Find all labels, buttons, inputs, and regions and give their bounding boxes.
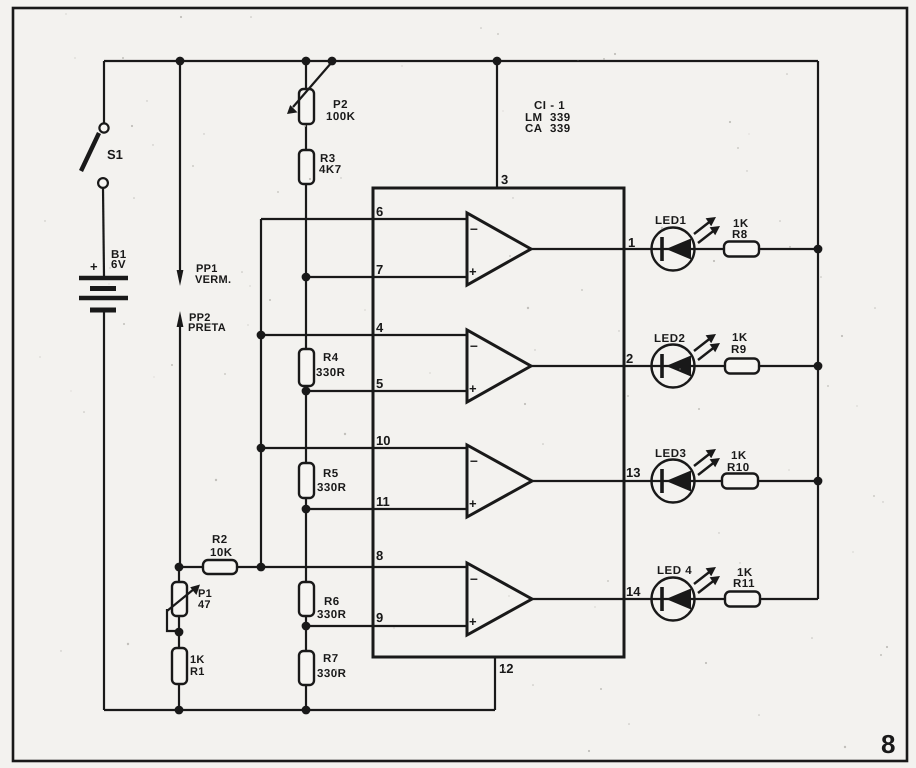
node right rail LED2 [814,362,823,371]
svg-text:+: + [469,381,477,396]
svg-text:9: 9 [376,610,383,625]
svg-text:R11: R11 [733,578,755,590]
wire R10 to right rail [758,480,818,482]
wire right rail [817,61,819,599]
svg-text:330R: 330R [317,668,347,680]
svg-text:–: – [470,220,478,236]
svg-text:1: 1 [628,235,635,250]
svg-text:CI - 1: CI - 1 [534,100,565,112]
svg-text:+: + [90,259,98,274]
wire pin 14 output [532,584,725,599]
svg-text:S1: S1 [107,147,123,162]
wire R4 to R5 [305,386,307,463]
svg-text:1K: 1K [190,654,205,666]
probe PP1 VERM (red probe, down arrow) [177,61,232,286]
wire R3 down divider to R4 [305,184,307,349]
wire R2 to pin 8 (comparator 4 inverting input) [237,566,467,568]
svg-text:100K: 100K [326,111,356,123]
svg-text:–: – [470,452,478,468]
resistor R8 1K [724,218,759,257]
svg-text:R8: R8 [732,229,748,241]
wire bottom rail [104,709,495,711]
op-amp comparator 2 [467,330,531,402]
wire pin 7 [306,262,467,277]
potentiometer P1 47 (rheostat) [167,567,212,632]
svg-text:PRETA: PRETA [188,322,226,334]
op-amp comparator 3 [467,445,532,517]
svg-text:6: 6 [376,204,383,219]
svg-text:LED 4: LED 4 [657,565,692,577]
wire pin 13 output [532,465,722,481]
wire pin 5 [306,376,467,391]
node top rail / divider [302,57,311,66]
svg-text:330R: 330R [317,609,347,621]
svg-text:R7: R7 [323,653,339,665]
wire R11 to right rail [760,598,818,600]
svg-text:R6: R6 [324,596,340,608]
svg-text:8: 8 [376,548,383,563]
label CI-1 LM339 CA339 [525,100,571,135]
wire R5 to R6 [305,498,307,582]
svg-text:+: + [469,264,477,279]
resistor R3 4K7 [299,150,342,184]
svg-text:11: 11 [376,494,390,509]
wire pin 4 [261,320,467,335]
svg-text:3: 3 [501,172,508,187]
wire pin 10 [261,433,467,448]
LED1 [652,215,721,271]
node pin 7 tap [302,273,311,282]
svg-text:–: – [470,570,478,586]
svg-text:6V: 6V [111,259,126,271]
op-amp comparator 1 [467,213,531,285]
svg-text:VERM.: VERM. [195,274,231,286]
resistor R4 330R [299,349,346,386]
op-amp comparator 4 [467,563,532,635]
svg-text:1K: 1K [731,450,747,462]
switch S1 [81,123,123,188]
svg-text:–: – [470,337,478,353]
svg-text:10: 10 [376,433,390,448]
node pin 10 tap [257,444,266,453]
svg-text:5: 5 [376,376,383,391]
wire pin 11 [306,494,467,509]
svg-text:R1: R1 [190,666,205,678]
wire R8 to right rail [759,248,818,250]
svg-text:R9: R9 [731,344,747,356]
wire battery to bottom rail [103,312,105,710]
node pin 9 tap [302,622,311,631]
wire pin 12 ground [495,657,513,710]
wire pin 6 [261,204,467,219]
resistor R2 10K [203,534,237,574]
probe PP2 PRETA (black probe, up arrow) [177,311,226,567]
svg-text:R4: R4 [323,352,339,364]
svg-text:R10: R10 [727,462,750,474]
svg-text:LED3: LED3 [655,448,686,460]
svg-text:LED2: LED2 [654,333,685,345]
svg-text:13: 13 [626,465,640,480]
node pin 4 tap [257,331,266,340]
svg-text:P2: P2 [333,99,348,111]
resistor R6 330R [299,582,347,621]
wire pin 3 supply [497,61,508,188]
resistor R11 1K [725,567,760,607]
wire pin 9 [306,610,467,626]
node top rail / PP1 [176,57,185,66]
resistor R10 1K [722,450,758,489]
LED2 [652,333,721,388]
node R2 / P1 junction [175,563,184,572]
wire top rail [104,60,818,62]
svg-text:10K: 10K [210,547,233,559]
node right rail LED1 [814,245,823,254]
LED3 [652,448,721,503]
svg-text:CA 339: CA 339 [525,123,571,135]
resistor R1 1K [172,632,205,710]
node pin 5 tap [302,387,311,396]
wire left reference bus [260,219,262,567]
IC box CI-1 LM339 [373,188,624,657]
wire battery to top rail [103,61,105,123]
wire P2 to R3 [305,124,307,150]
potentiometer P2 100K [287,61,356,124]
svg-text:2: 2 [626,351,633,366]
svg-text:R2: R2 [212,534,228,546]
svg-text:8: 8 [881,729,895,759]
wire junction to R2 [179,566,203,568]
svg-text:14: 14 [626,584,641,599]
battery B1 [79,249,128,310]
resistor R7 330R [299,651,347,685]
node pin 3 on top rail [493,57,502,66]
svg-text:+: + [469,614,477,629]
node pin 11 tap [302,505,311,514]
svg-text:1K: 1K [732,332,748,344]
wire R6 to R7 [305,616,307,651]
svg-text:7: 7 [376,262,383,277]
resistor R5 330R [299,463,347,498]
svg-text:47: 47 [198,599,211,611]
wire R7 to bottom rail [305,685,307,710]
wire pin 2 output [531,351,725,366]
svg-text:330R: 330R [317,482,347,494]
wire pin 1 output [531,235,724,250]
svg-text:LED1: LED1 [655,215,687,227]
node P1 / R1 junction [175,628,184,637]
svg-text:R5: R5 [323,468,339,480]
node bottom rail / R1 [175,706,184,715]
LED4 [652,565,721,621]
node top rail / P2 wiper [328,57,337,66]
wire S1 to battery [103,188,104,276]
svg-text:4K7: 4K7 [319,164,342,176]
node right rail LED3 [814,477,823,486]
svg-text:+: + [469,496,477,511]
resistor R9 1K [725,332,759,374]
svg-text:330R: 330R [316,367,346,379]
svg-text:12: 12 [499,661,513,676]
wire R9 to right rail [759,365,818,367]
node bus / pin 8 [257,563,266,572]
node bottom rail / R7 [302,706,311,715]
svg-text:4: 4 [376,320,384,335]
